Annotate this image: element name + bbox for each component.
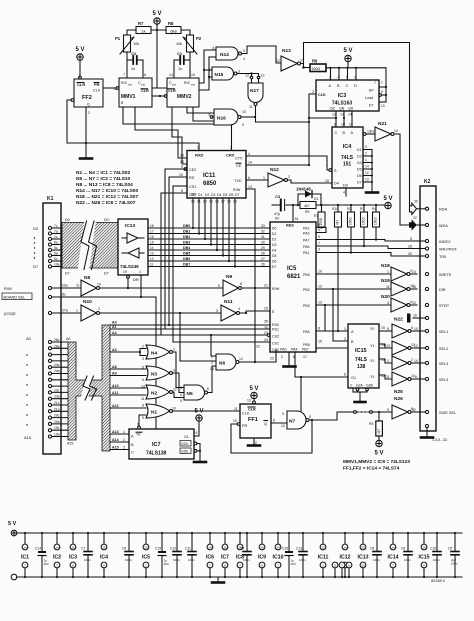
svg-text:20: 20 (144, 546, 148, 550)
svg-text:100n: 100n (243, 558, 250, 562)
NAND N5 (180, 385, 209, 403)
wire IC11 TXD to N12 (246, 179, 268, 181)
svg-text:13: 13 (386, 344, 390, 348)
svg-text:29a: 29a (62, 284, 68, 288)
svg-text:13: 13 (370, 130, 374, 134)
wire IC5 PA6 to N22 with R10 pullup (316, 330, 392, 332)
IC7 G2 wires to ground (194, 442, 206, 462)
wire MMV2 bottom pins to N16 inputs (187, 107, 214, 113)
svg-text:14: 14 (391, 546, 395, 550)
svg-text:26c: 26c (54, 338, 60, 342)
svg-text:2: 2 (344, 337, 346, 341)
5V supply right (383, 196, 392, 209)
svg-text:34: 34 (295, 217, 299, 221)
svg-text:N1: N1 (151, 410, 157, 416)
svg-text:11: 11 (349, 123, 353, 127)
svg-text:4k7: 4k7 (304, 204, 310, 208)
svg-text:138: 138 (357, 364, 366, 370)
svg-text:4: 4 (248, 152, 250, 156)
svg-text:C: C (131, 451, 134, 455)
IC11 data stubs to bus (192, 198, 236, 268)
svg-text:29: 29 (261, 246, 265, 250)
buffer N20 (381, 294, 417, 312)
svg-text:Y2: Y2 (370, 359, 374, 363)
svg-text:D4: D4 (334, 182, 339, 186)
svg-text:G2B: G2B (366, 384, 374, 388)
pullup R5 (369, 411, 384, 457)
svg-text:R6: R6 (312, 59, 318, 64)
svg-text:A11: A11 (112, 391, 118, 395)
IC13 supply (358, 532, 369, 578)
svg-text:C4: C4 (240, 547, 244, 551)
svg-text:RXD: RXD (195, 153, 204, 158)
svg-text:11: 11 (386, 375, 390, 379)
svg-text:3: 3 (329, 76, 331, 80)
K1 address pins A0-A15 (24, 336, 73, 446)
wire IC5 PA7 to K2 INDEX (316, 240, 417, 242)
svg-text:G2B: G2B (181, 450, 189, 454)
svg-text:DB0: DB0 (183, 224, 190, 228)
svg-text:11: 11 (386, 285, 390, 289)
svg-text:IC4: IC4 (100, 555, 108, 561)
svg-text:16: 16 (223, 546, 227, 550)
svg-text:32: 32 (261, 230, 265, 234)
NAND N7 (281, 411, 311, 429)
wire IC5 PB3 to N20 (316, 304, 391, 306)
svg-text:IC5: IC5 (142, 555, 150, 561)
svg-text:PB3: PB3 (303, 304, 310, 308)
svg-text:13: 13 (210, 367, 214, 371)
svg-text:20: 20 (361, 546, 365, 550)
wire MMV1 Q to MMV2 B (152, 95, 165, 97)
wires N4,N3,N2 outputs to N5 inputs (173, 352, 185, 388)
wire MMV2 to N14 inputs (199, 50, 216, 83)
K2 pins and signal names (408, 207, 458, 427)
svg-text:IC1: IC1 (21, 555, 29, 561)
svg-text:10: 10 (361, 564, 365, 568)
svg-text:D5: D5 (272, 254, 276, 258)
wire IC5 PB5 to N23 (316, 347, 392, 349)
C13 supply (296, 532, 307, 578)
decoder IC7 74LS138 (123, 423, 198, 460)
K1 R/W row + inverter N8 (4, 275, 223, 296)
svg-text:151: 151 (343, 162, 352, 168)
PIA IC5 6821 (256, 222, 322, 359)
svg-text:24: 24 (412, 270, 416, 274)
svg-text:23: 23 (270, 357, 274, 361)
svg-text:D4: D4 (217, 193, 221, 197)
svg-text:IC4: IC4 (343, 144, 353, 150)
svg-text:18: 18 (150, 224, 154, 228)
svg-text:14: 14 (348, 113, 352, 117)
IC5 PA wires to pullups (316, 227, 322, 229)
svg-text:10: 10 (411, 374, 415, 378)
IC11 data pin labels (191, 193, 239, 204)
svg-text:28: 28 (261, 252, 265, 256)
svg-text:1: 1 (173, 348, 175, 352)
IC14 supply (388, 532, 399, 578)
svg-text:28: 28 (408, 245, 412, 249)
svg-text:N14 ... N17 = IC10 = 74LS00: N14 ... N17 = IC10 = 74LS00 (76, 188, 138, 194)
svg-text:150Ω: 150Ω (362, 217, 366, 225)
svg-text:C15: C15 (155, 547, 161, 551)
svg-text:D1: D1 (357, 148, 362, 152)
svg-text:15: 15 (325, 179, 329, 183)
note text block (76, 170, 138, 206)
svg-text:5: 5 (334, 564, 336, 568)
IC5 supply (142, 532, 150, 578)
buffer N24 (387, 356, 425, 370)
svg-text:A0: A0 (66, 337, 70, 341)
svg-text:4k7: 4k7 (336, 220, 340, 225)
svg-text:DB1: DB1 (183, 230, 190, 234)
svg-text:N26: N26 (394, 396, 403, 402)
svg-text:PA4: PA4 (291, 348, 298, 352)
N7 out to jumper row (309, 412, 340, 420)
svg-text:CLK: CLK (242, 412, 250, 416)
svg-text:C5: C5 (448, 547, 452, 551)
wire MMV1 bottom pin to CRX riser (123, 107, 232, 150)
svg-text:IC10: IC10 (273, 555, 284, 561)
svg-text:150Ω: 150Ω (312, 67, 321, 71)
svg-text:5c: 5c (54, 246, 58, 250)
IC10 supply (273, 532, 284, 578)
NOR gate N2 (141, 385, 177, 402)
C7 supply (81, 532, 92, 578)
svg-text:150Ω: 150Ω (374, 217, 378, 225)
svg-text:SEL4: SEL4 (439, 378, 448, 382)
svg-text:G2A: G2A (356, 384, 364, 388)
svg-text:23c: 23c (54, 388, 60, 392)
svg-text:5: 5 (243, 49, 245, 53)
svg-text:R4: R4 (372, 207, 376, 211)
svg-text:10a: 10a (54, 263, 60, 267)
counter IC3 74LS163 (312, 76, 379, 117)
svg-text:9: 9 (142, 416, 144, 420)
svg-text:16: 16 (260, 546, 264, 550)
svg-text:2: 2 (98, 307, 100, 311)
svg-text:14: 14 (23, 546, 27, 550)
svg-text:25: 25 (264, 307, 268, 311)
svg-text:100n: 100n (84, 558, 91, 562)
address bus hatched ribbon (68, 325, 110, 451)
svg-text:FF2: FF2 (82, 95, 92, 101)
5V supply at IC7 G1 (194, 409, 204, 437)
control bundle verticals to IC5 selects (161, 169, 270, 342)
ground under FF2 (80, 157, 92, 160)
svg-text:QC: QC (330, 107, 336, 111)
RDA input arrow (410, 200, 426, 215)
svg-text:14: 14 (414, 359, 418, 363)
wire IC11 CE row (246, 164, 309, 166)
ground on bottom rail (212, 577, 224, 583)
svg-text:5: 5 (346, 76, 348, 80)
svg-text:6: 6 (144, 73, 146, 77)
svg-text:PA1: PA1 (303, 251, 310, 255)
pullup resistor R1 (314, 204, 325, 227)
wire IC5 PB0 to N18 (316, 273, 391, 275)
ground bar under IC4 (366, 191, 378, 194)
wire P1 to C2/MMV1 (126, 52, 128, 78)
svg-text:(IO2)E: (IO2)E (4, 311, 16, 316)
svg-text:8c: 8c (62, 293, 66, 297)
decoupling rail section (8, 521, 462, 580)
svg-text:MMV1: MMV1 (121, 94, 136, 100)
svg-text:100n: 100n (433, 558, 440, 562)
svg-text:10: 10 (281, 424, 285, 428)
svg-text:6V: 6V (275, 217, 280, 221)
svg-text:8: 8 (224, 564, 226, 568)
svg-text:15: 15 (318, 340, 322, 344)
svg-text:16: 16 (102, 546, 106, 550)
svg-text:21a: 21a (54, 407, 60, 411)
svg-text:6: 6 (344, 373, 346, 377)
svg-text:N21: N21 (378, 121, 387, 127)
buffer N22 (387, 317, 425, 339)
wire N14 out to N13 in (242, 46, 282, 63)
svg-text:14: 14 (150, 246, 154, 250)
svg-text:N18: N18 (381, 263, 390, 269)
svg-text:8: 8 (273, 419, 275, 423)
svg-text:12: 12 (394, 129, 398, 133)
svg-text:A3: A3 (112, 348, 117, 352)
svg-text:P1: P1 (115, 36, 121, 41)
svg-text:D7: D7 (33, 264, 39, 269)
svg-text:18: 18 (412, 285, 416, 289)
svg-text:8: 8 (318, 327, 320, 331)
IC13 dir wire (140, 275, 142, 297)
svg-text:A12: A12 (112, 404, 119, 408)
svg-text:3: 3 (387, 301, 389, 305)
svg-text:9: 9 (218, 284, 220, 288)
svg-text:3: 3 (318, 248, 320, 252)
svg-text:12: 12 (365, 171, 369, 175)
svg-text:8: 8 (410, 237, 412, 241)
svg-text:10k: 10k (176, 42, 182, 46)
svg-text:4: 4 (173, 369, 175, 373)
svg-text:1: 1 (76, 309, 78, 313)
svg-text:QB: QB (339, 107, 345, 111)
EP/Load/ET ties to 5V (379, 68, 387, 108)
resistor R6 (310, 59, 326, 72)
svg-text:24c: 24c (54, 363, 60, 367)
svg-text:FF1: FF1 (248, 417, 258, 423)
wire C2 pin to MMV1 (142, 60, 144, 78)
svg-text:12: 12 (173, 388, 177, 392)
capacitor C2 (127, 51, 143, 71)
svg-text:A10: A10 (112, 384, 119, 388)
svg-text:C11: C11 (185, 547, 191, 551)
buffer N23 (386, 341, 425, 355)
svg-text:C16: C16 (282, 547, 288, 551)
svg-text:G1: G1 (184, 435, 189, 439)
svg-text:7: 7 (392, 564, 394, 568)
svg-text:2: 2 (142, 345, 144, 349)
svg-text:21c: 21c (54, 401, 60, 405)
svg-text:D2: D2 (272, 238, 276, 242)
svg-text:1: 1 (322, 564, 324, 568)
svg-text:9: 9 (137, 423, 139, 427)
svg-text:SEL1: SEL1 (439, 330, 448, 334)
svg-text:N1 ... N4 = IC1 = 74LS02: N1 ... N4 = IC1 = 74LS02 (76, 170, 130, 176)
svg-text:CLR: CLR (141, 89, 149, 93)
svg-text:IC12: IC12 (340, 555, 351, 561)
svg-text:6: 6 (415, 375, 417, 379)
svg-text:IC7: IC7 (221, 555, 229, 561)
svg-text:A0: A0 (26, 336, 32, 341)
svg-text:D3: D3 (211, 193, 215, 197)
svg-text:10: 10 (318, 270, 322, 274)
wire 5V down between MMVs (156, 30, 158, 88)
svg-text:RS0: RS0 (272, 323, 279, 327)
svg-text:C13: C13 (296, 547, 302, 551)
pullup resistor R10 (332, 204, 342, 227)
svg-text:IC14: IC14 (388, 555, 399, 561)
C5 supply (448, 532, 459, 578)
svg-text:Y3: Y3 (370, 375, 374, 379)
svg-text:22: 22 (413, 216, 417, 220)
svg-text:5: 5 (142, 366, 144, 370)
svg-text:DB7: DB7 (183, 263, 190, 267)
svg-text:D5: D5 (357, 168, 362, 172)
flip-flop FF1 (233, 386, 275, 445)
connector K2 (420, 179, 436, 431)
svg-text:1,3,5...33: 1,3,5...33 (432, 438, 447, 442)
svg-text:IC7: IC7 (152, 442, 161, 448)
svg-text:WR.PROT.: WR.PROT. (439, 248, 458, 252)
svg-text:D0: D0 (33, 226, 39, 231)
svg-text:IC3: IC3 (338, 93, 347, 99)
svg-text:IC5: IC5 (287, 266, 297, 272)
svg-text:R3: R3 (360, 207, 364, 211)
svg-text:5 V: 5 V (374, 451, 383, 457)
svg-text:8: 8 (411, 407, 413, 411)
svg-text:10: 10 (414, 327, 418, 331)
svg-text:9: 9 (181, 165, 183, 169)
svg-text:DB4: DB4 (183, 246, 190, 250)
jumper with dashed link before N26 (340, 411, 392, 414)
svg-text:10: 10 (341, 123, 345, 127)
svg-text:D: D (354, 84, 357, 88)
wire 5V to R7/R8 junction (156, 24, 158, 30)
svg-text:SEL2: SEL2 (439, 347, 448, 351)
svg-text:27a: 27a (62, 309, 68, 313)
svg-text:A13: A13 (112, 430, 119, 434)
svg-text:6821: 6821 (287, 274, 301, 280)
svg-text:DB6: DB6 (183, 257, 190, 261)
svg-text:PB5: PB5 (303, 343, 310, 347)
svg-text:C14: C14 (35, 547, 41, 551)
svg-text:N8 ... N13 = IC8 = 74LS04: N8 ... N13 = IC8 = 74LS04 (76, 182, 133, 188)
svg-text:2: 2 (197, 146, 199, 150)
svg-text:N16: N16 (217, 116, 226, 122)
svg-text:R/W: R/W (272, 287, 280, 291)
potentiometer P1 (115, 35, 139, 54)
svg-text:N5: N5 (187, 391, 193, 397)
svg-text:7: 7 (56, 564, 58, 568)
svg-text:5: 5 (180, 399, 182, 403)
svg-text:STEP: STEP (439, 304, 449, 308)
svg-text:RS1: RS1 (272, 328, 279, 332)
svg-text:14: 14 (169, 73, 173, 77)
svg-text:2: 2 (365, 152, 367, 156)
svg-text:31: 31 (261, 235, 265, 239)
resistor R9 (300, 202, 316, 215)
wire N16 input (210, 116, 213, 119)
svg-text:D0: D0 (191, 193, 195, 197)
svg-text:BOARD SEL: BOARD SEL (4, 296, 26, 300)
wire FF2 Q to MMV1 B (103, 87, 117, 89)
svg-text:PA2: PA2 (303, 227, 310, 231)
IC15 A/B input wires (333, 330, 348, 332)
svg-text:C1: C1 (177, 51, 183, 56)
svg-text:A15: A15 (67, 442, 73, 446)
svg-text:R1: R1 (314, 214, 318, 218)
flip-flop FF2 (71, 75, 103, 107)
svg-text:R/W: R/W (4, 286, 12, 291)
wire IC5 PA5 to K2 WR.PROT (316, 246, 417, 249)
capacitor C1 (174, 51, 190, 71)
svg-text:EP: EP (369, 89, 374, 93)
wire N1 out to FF1 CLK (173, 410, 241, 412)
svg-text:9: 9 (348, 564, 350, 568)
svg-text:CTX: CTX (235, 157, 243, 161)
svg-text:9: 9 (381, 90, 383, 94)
wire N21 out down to K2 WDA (394, 134, 409, 225)
svg-text:RES: RES (286, 224, 294, 228)
svg-text:D7: D7 (104, 272, 109, 276)
svg-text:16: 16 (413, 314, 417, 318)
svg-text:N19: N19 (381, 278, 390, 284)
svg-text:7: 7 (341, 564, 343, 568)
svg-text:PA0: PA0 (280, 348, 287, 352)
svg-text:2: 2 (281, 355, 283, 359)
svg-text:74LS138: 74LS138 (146, 451, 167, 457)
svg-text:15: 15 (381, 326, 385, 330)
svg-text:16: 16 (150, 235, 154, 239)
svg-text:2: 2 (88, 111, 90, 115)
svg-text:ext: ext (191, 83, 195, 87)
IC4 D0 stub (345, 188, 347, 196)
svg-text:8: 8 (423, 564, 425, 568)
svg-text:7: 7 (123, 73, 125, 77)
svg-text:R/W: R/W (233, 188, 241, 192)
svg-text:11: 11 (249, 105, 253, 109)
buffer N21 (370, 121, 398, 141)
svg-text:N7: N7 (289, 419, 295, 425)
svg-text:C10: C10 (430, 547, 436, 551)
svg-text:26: 26 (408, 252, 412, 256)
svg-text:12: 12 (318, 285, 322, 289)
svg-text:10: 10 (179, 173, 183, 177)
svg-text:20: 20 (412, 301, 416, 305)
svg-text:C9: C9 (122, 547, 126, 551)
svg-text:Q: Q (264, 421, 267, 426)
svg-text:16: 16 (71, 546, 75, 550)
svg-text:6c: 6c (54, 257, 58, 261)
svg-text:IC13: IC13 (358, 555, 369, 561)
NOR gate N3 (142, 366, 175, 383)
pullup resistor R4 (372, 204, 380, 227)
pullup resistor R2 (347, 204, 355, 227)
resistor R8 (166, 21, 181, 34)
wire P2 to C1/MMV2 (189, 52, 191, 78)
svg-text:D6: D6 (229, 193, 233, 197)
svg-text:QA: QA (348, 107, 354, 111)
wire IC5 PA1 to K2 TR0 (316, 253, 417, 257)
svg-text:13: 13 (365, 178, 369, 182)
svg-text:74LS245: 74LS245 (120, 264, 139, 269)
